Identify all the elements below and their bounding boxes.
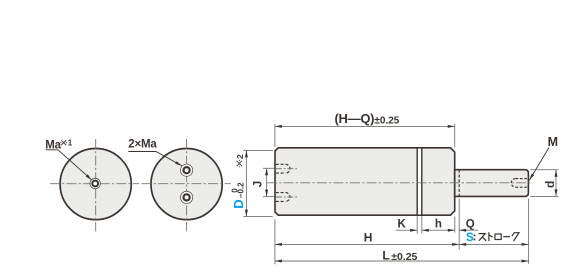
hidden thread M in shaft end xyxy=(511,179,527,188)
svg-text:±0.25: ±0.25 xyxy=(391,251,417,263)
hidden tapped hole top (side view) xyxy=(276,164,290,173)
side view centerline xyxy=(267,182,533,184)
svg-text:d: d xyxy=(543,181,557,188)
groove extension line left (K) xyxy=(416,216,418,233)
hidden hole bottom centerline xyxy=(276,196,299,198)
leader line M xyxy=(529,148,549,181)
label katakana ー xyxy=(503,236,510,238)
extension line h right xyxy=(454,216,456,232)
label katakana ク xyxy=(512,232,519,241)
ring groove (K) white band xyxy=(418,149,421,215)
dimension line L xyxy=(275,260,529,262)
svg-text:K: K xyxy=(398,219,407,231)
front view circle 1 (body end face) xyxy=(60,149,131,220)
hole Ma top (thread circle) xyxy=(181,164,193,176)
hidden tapped hole bottom (side view) xyxy=(276,193,290,202)
svg-text:1: 1 xyxy=(68,139,73,148)
label katakana ロ xyxy=(495,234,501,240)
label J (rotated) xyxy=(253,181,265,187)
hole Ma bottom (thread circle) xyxy=(181,191,193,203)
extension line right S/L xyxy=(528,199,530,264)
leader line Ma xyxy=(46,150,92,180)
dimension D extension bottom xyxy=(243,216,272,218)
svg-text:(H—Q): (H—Q) xyxy=(335,111,375,126)
dimension line D xyxy=(245,150,247,216)
hole Ma center (tap hole ring) xyxy=(92,181,98,187)
svg-text:Q: Q xyxy=(466,219,475,231)
label katakana ス xyxy=(479,234,487,241)
dimension d extension bottom xyxy=(530,195,558,197)
dimension D extension top xyxy=(243,149,272,151)
svg-text:S: S xyxy=(466,232,474,244)
centerline vertical circle2 xyxy=(186,139,188,231)
dimension (H-Q) extension left xyxy=(274,124,276,147)
side view silhouette (body + ring groove + h section) xyxy=(275,148,455,215)
dimension line (H-Q) xyxy=(275,125,455,127)
svg-text:h: h xyxy=(435,219,442,231)
centerline vertical circle1 xyxy=(95,139,97,231)
centerline horizontal circle1 xyxy=(50,183,139,185)
hole Ma top (tap hole ring) xyxy=(184,167,190,173)
hidden stroke line on shaft xyxy=(458,170,460,197)
svg-text:0: 0 xyxy=(230,188,239,193)
centerline horizontal circle2 xyxy=(142,183,231,185)
label D -0/-0.2 ※2 (rotated) xyxy=(230,154,245,209)
hole Ma center (thread circle) xyxy=(90,178,100,188)
dimension J extension bottom xyxy=(263,196,274,198)
dimension K tail line xyxy=(396,229,417,231)
svg-text:H: H xyxy=(364,230,373,244)
svg-text:2: 2 xyxy=(235,154,245,159)
svg-text:±0.25: ±0.25 xyxy=(374,116,399,127)
svg-text:J: J xyxy=(253,181,265,187)
arrow Q xyxy=(459,229,466,232)
dimension line h xyxy=(422,229,455,231)
dimension (H-Q) extension right xyxy=(454,124,456,147)
groove left edge xyxy=(416,148,418,215)
leader arrow M xyxy=(529,174,534,181)
front view circle 2 (end face with 2 holes) xyxy=(151,149,222,220)
svg-text:M: M xyxy=(548,135,558,149)
svg-text:2×Ma: 2×Ma xyxy=(128,139,157,151)
dimension line J xyxy=(266,168,268,196)
leader arrow Ma xyxy=(86,174,92,180)
leader line 2×Ma xyxy=(128,152,182,166)
dimension d extension top xyxy=(530,169,558,171)
label d (rotated) xyxy=(543,181,557,188)
groove right edge xyxy=(421,148,423,215)
arrow K xyxy=(410,229,417,232)
dimension line S (stroke) xyxy=(459,243,528,245)
dimension J extension top xyxy=(263,167,274,169)
extension line stroke (solid part below shaft) xyxy=(458,199,460,250)
shaft (plunger pin) xyxy=(455,170,529,197)
hole Ma bottom (tap hole ring) xyxy=(184,194,190,200)
label katakana ト xyxy=(489,232,493,241)
label ：(colon) xyxy=(474,235,476,237)
dimension line H xyxy=(275,243,459,245)
extension line left H/L xyxy=(274,219,276,264)
leader arrow 2×Ma xyxy=(175,161,182,166)
groove extension line right (K) xyxy=(421,216,423,233)
dimension line d xyxy=(555,170,557,197)
hidden hole top centerline xyxy=(276,168,299,170)
svg-text:L: L xyxy=(382,248,389,262)
dimension Q tail line xyxy=(459,229,478,231)
reference mark ※1 xyxy=(60,140,67,145)
svg-text:D: D xyxy=(231,199,246,208)
